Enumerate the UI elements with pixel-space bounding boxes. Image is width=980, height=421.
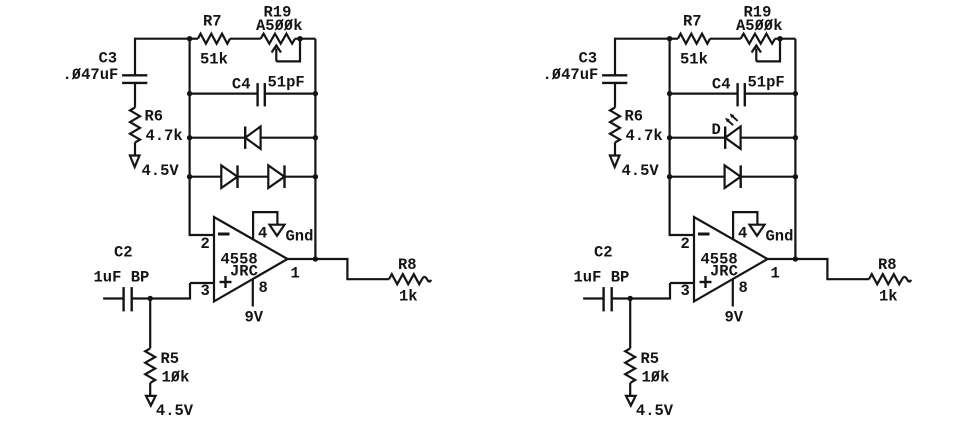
label pin 2 (B) [681,235,690,253]
resistor R8 (B) [869,274,902,284]
pin 1 output wire (B) [768,259,870,279]
svg-text:C3: C3 [579,50,598,68]
wire D3 to right rail (A) [285,176,316,178]
label 4.5V upper (A) [142,162,180,180]
svg-text:4: 4 [738,225,747,243]
label D (B) [712,121,721,139]
wire C2 to pin3 jog (A) [132,283,190,299]
resistor R7 (A) [198,34,230,44]
svg-text:Gnd: Gnd [286,228,314,246]
ground symbol (A) [270,225,285,236]
label 4.5V lower (A) [156,402,194,420]
resistor R5 (A) [145,348,155,383]
label R19 (B) [744,4,772,22]
potentiometer R19 (A) [261,34,295,44]
wire C2 to pin3 jog (B) [612,283,670,299]
node dot left C4 branch (B) [667,91,672,96]
svg-text:C4: C4 [712,76,731,94]
label 4.5V lower (B) [636,402,674,420]
pin 3 wire (B) [670,282,694,284]
svg-text:R7: R7 [203,13,222,31]
wire wiper to top net (B) [756,39,780,62]
wire junction to R5 (A) [149,299,151,349]
wire input to C2 (A) [103,297,122,299]
input junction dot (A) [148,296,153,301]
right rail wire (B) [794,39,796,259]
label C2 (B) [594,244,613,262]
label pin 8 (B) [739,279,748,297]
wire top-left from C3 to node A (B) [615,39,670,76]
wire R6 to 4.5V arrow (A) [134,143,136,156]
node dot right bottom branch (B) [793,174,798,179]
svg-text:4.5V: 4.5V [636,402,674,420]
resistor R6 (A) [130,108,140,143]
wire R7 to R19 (B) [710,38,741,40]
op-amp minus sign (A) [218,233,230,236]
label pin 4 (B) [738,225,747,243]
label 51pF (A) [268,74,305,92]
label R8 (B) [878,256,897,274]
svg-text:10k: 10k [162,369,190,387]
svg-text:1k: 1k [879,288,898,306]
wire input to C2 (B) [583,297,602,299]
label pin 4 (A) [258,225,267,243]
wire C4 to right rail (B) [745,92,796,94]
wire left to C4 (B) [670,92,738,94]
svg-text:1uF BP: 1uF BP [94,269,150,287]
label 4558 (B) [701,251,738,269]
output junction dot (B) [793,256,798,261]
R19 wiper arrow (A) [272,46,281,62]
label R6 (B) [625,108,644,126]
node dot left bottom branch (B) [667,174,672,179]
wire node A to R7 (B) [670,38,678,40]
resistor R5 (B) [625,348,635,383]
wire R8 tail (B) [902,277,911,282]
wiper junction dot (A) [297,36,302,41]
left rail wire (A) [189,39,191,235]
pin 2 wire (B) [669,234,695,236]
slash in zero of 10k (A) [171,371,179,382]
label 51k (A) [200,51,228,69]
wire LED to right rail (B) [741,137,796,139]
svg-text:8: 8 [739,279,748,297]
ground symbol (B) [750,225,765,236]
label .047uF (A) [63,66,119,84]
svg-text:8: 8 [259,279,268,297]
svg-text:C4: C4 [232,76,251,94]
node dot right mid branch (B) [793,135,798,140]
label R6 (A) [145,108,164,126]
label .047uF (B) [543,66,599,84]
label pin 8 (A) [259,279,268,297]
svg-text:10k: 10k [642,369,670,387]
wire C3 to R6 (A) [134,83,136,108]
LED D pointing left (B) [725,127,740,149]
slash in zero of .047uF (A) [72,68,80,79]
wiper junction dot (B) [777,36,782,41]
capacitor C4 (A) [258,83,265,106]
label C3 (B) [579,50,598,68]
label pin 3 (A) [201,282,210,300]
pin 8 wire (B) [732,279,734,306]
label R19 (A) [264,4,292,22]
svg-text:R5: R5 [161,350,180,368]
wire left to mid diode (B) [670,137,726,139]
wire left to C4 (A) [190,92,258,94]
label C2 (A) [114,244,133,262]
slashes in zeros of A500k (A) [275,19,292,30]
op-amp U1 4558 triangle (B) [694,217,768,301]
svg-text:R8: R8 [878,256,897,274]
pin 8 wire (A) [252,279,254,306]
label pin 2 (A) [201,235,210,253]
right rail wire (A) [314,39,316,259]
svg-text:Gnd: Gnd [766,228,794,246]
label 4.5V upper (B) [622,162,660,180]
svg-text:R5: R5 [641,350,660,368]
label Gnd (A) [286,228,314,246]
wire C4 to right rail (A) [265,92,316,94]
label 4.7k (B) [626,127,663,145]
svg-text:C2: C2 [114,244,133,262]
svg-text:1: 1 [291,265,300,283]
diode D2 pointing right (B) [725,165,741,188]
svg-text:2: 2 [681,235,690,253]
op-amp U1 4558 triangle (A) [214,217,288,301]
op-amp minus sign (B) [698,233,710,236]
svg-text:C2: C2 [594,244,613,262]
label R5 (A) [161,350,180,368]
R19 wiper arrow (B) [752,46,761,62]
4.5V supply arrow (A) [130,156,140,168]
wire wiper to top net (A) [276,39,300,62]
wire R5 to arrow (B) [629,383,631,396]
svg-text:JRC: JRC [710,263,738,281]
wire R6 to 4.5V arrow (B) [614,143,616,156]
label C3 (A) [99,50,118,68]
label 4558 (A) [221,251,258,269]
svg-text:A500k: A500k [736,17,783,35]
label JRC (A) [230,263,258,281]
left rail wire (B) [668,39,670,235]
svg-text:51pF: 51pF [748,74,785,92]
svg-text:4: 4 [258,225,267,243]
4.5V supply arrow (B) [610,156,620,168]
svg-text:D: D [712,121,721,139]
label 1k (A) [399,288,418,306]
potentiometer R19 (B) [741,34,775,44]
wire R5 to arrow (A) [149,383,151,396]
slashes in zeros of A500k (B) [755,19,772,30]
svg-text:1uF BP: 1uF BP [574,269,630,287]
output junction dot (A) [313,256,318,261]
label R8 (A) [398,256,417,274]
label 51k (B) [680,51,708,69]
svg-text:R6: R6 [145,108,164,126]
svg-text:JRC: JRC [230,263,258,281]
label pin 1 (A) [291,265,300,283]
node dot left C4 branch (A) [187,91,192,96]
node dot left mid branch (A) [187,135,192,140]
diode D2 pointing right (A) [221,165,237,188]
capacitor C3 (B) [602,75,627,83]
LED emission arrows (B) [725,114,738,126]
node dot left bottom branch (A) [187,174,192,179]
svg-text:3: 3 [681,282,690,300]
label 9V (A) [245,309,264,327]
label pin 1 (B) [771,265,780,283]
svg-text:R7: R7 [683,13,702,31]
svg-text:9V: 9V [245,309,264,327]
label A500k (A) [256,17,303,35]
label 9V (B) [725,309,744,327]
op-amp plus sign (A) [220,276,232,288]
label 1uF BP (A) [94,269,150,287]
wire left to mid diode (A) [190,137,246,139]
svg-text:51k: 51k [200,51,228,69]
wire junction to R5 (B) [629,299,631,349]
label R5 (B) [641,350,660,368]
svg-text:1k: 1k [399,288,418,306]
pin 1 output wire (A) [288,259,390,279]
svg-text:51pF: 51pF [268,74,305,92]
svg-text:51k: 51k [680,51,708,69]
svg-text:2: 2 [201,235,210,253]
label C4 (A) [232,76,251,94]
svg-text:C3: C3 [99,50,118,68]
label Gnd (B) [766,228,794,246]
wire R8 tail (A) [422,277,431,282]
capacitor C2 (B) [604,287,612,311]
capacitor C3 (A) [122,75,147,83]
diode D1 pointing left (A) [245,127,260,149]
wire C3 to R6 (B) [614,83,616,108]
wire D2 to right rail (B) [741,176,796,178]
label C4 (B) [712,76,731,94]
wire top-left from C3 to node A (A) [135,39,190,76]
svg-text:9V: 9V [725,309,744,327]
capacitor C2 (A) [124,287,132,311]
wire left to diode D2 (A) [190,176,222,178]
node dot left mid branch (B) [667,135,672,140]
wire R7 to R19 (A) [230,38,261,40]
svg-text:A500k: A500k [256,17,303,35]
wire R19 to right rail (A) [295,38,315,40]
label 1k (B) [879,288,898,306]
node A junction dot (A) [187,36,192,41]
label 51pF (B) [748,74,785,92]
resistor R6 (B) [610,108,620,143]
pin 4 wire (B) [733,212,757,240]
svg-text:4.5V: 4.5V [142,162,180,180]
4.5V supply arrow lower (A) [146,396,156,406]
wire left to diode D2 (B) [670,176,725,178]
4.5V supply arrow lower (B) [626,396,636,406]
capacitor C4 (B) [738,83,745,106]
pin 3 wire (A) [190,282,214,284]
pin 4 wire (A) [253,212,277,240]
label pin 3 (B) [681,282,690,300]
label A500k (B) [736,17,783,35]
node dot right C4 branch (B) [793,91,798,96]
resistor R7 (B) [678,34,710,44]
svg-text:4.7k: 4.7k [146,127,183,145]
svg-text:1: 1 [771,265,780,283]
svg-text:R8: R8 [398,256,417,274]
input junction dot (B) [628,296,633,301]
wire R19 to right rail (B) [775,38,795,40]
svg-text:.047uF: .047uF [63,66,119,84]
wire D2 to D3 (A) [238,176,269,178]
node A junction dot (B) [667,36,672,41]
op-amp plus sign (B) [700,276,712,288]
label 10k (B) [642,369,670,387]
slash in zero of 10k (B) [651,371,659,382]
label 1uF BP (B) [574,269,630,287]
wire node A to R7 (A) [190,38,198,40]
slash in zero of .047uF (B) [552,68,560,79]
label R7 (B) [683,13,702,31]
svg-text:4.5V: 4.5V [156,402,194,420]
label R7 (A) [203,13,222,31]
svg-text:3: 3 [201,282,210,300]
svg-text:R6: R6 [625,108,644,126]
svg-text:4.5V: 4.5V [622,162,660,180]
svg-text:4.7k: 4.7k [626,127,663,145]
label JRC (B) [710,263,738,281]
pin 2 wire (A) [189,234,215,236]
svg-text:.047uF: .047uF [543,66,599,84]
label 4.7k (A) [146,127,183,145]
wire mid diode to right rail (A) [261,137,316,139]
node dot right bottom branch (A) [313,174,318,179]
node dot right C4 branch (A) [313,91,318,96]
diode D3 pointing right (A) [268,165,284,188]
label 10k (A) [162,369,190,387]
resistor R8 (A) [389,274,422,284]
node dot right mid branch (A) [313,135,318,140]
